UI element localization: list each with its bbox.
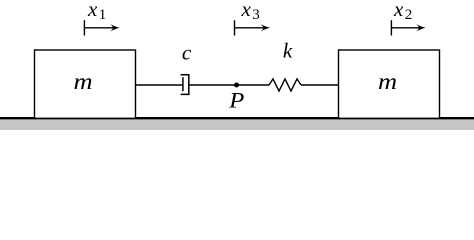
mass m (left block) (35, 50, 136, 118)
spring k (269, 79, 301, 91)
svg-text:1: 1 (99, 7, 107, 23)
damper c (181, 75, 189, 95)
wire (damper to spring through node P) (189, 84, 269, 86)
coordinate arrow x3 (235, 20, 271, 35)
svg-text:P: P (228, 88, 244, 112)
svg-text:m: m (73, 70, 92, 95)
svg-text:x: x (241, 0, 252, 21)
svg-text:m: m (378, 70, 397, 95)
svg-text:3: 3 (252, 7, 259, 23)
wire (spring to right mass) (301, 84, 339, 86)
coordinate arrow x2 (391, 20, 425, 35)
svg-text:c: c (182, 41, 192, 65)
label x3 (241, 0, 260, 23)
coordinate arrow x1 (84, 20, 119, 35)
label x2 (393, 0, 412, 23)
ground (0, 118, 474, 130)
svg-text:x: x (87, 0, 98, 21)
svg-text:k: k (283, 39, 293, 63)
node P dot (234, 83, 239, 88)
wire (left mass to damper piston) (136, 84, 184, 86)
label x1 (87, 0, 106, 23)
mass m (right block) (339, 50, 440, 118)
svg-text:2: 2 (405, 7, 413, 23)
svg-text:x: x (393, 0, 404, 21)
